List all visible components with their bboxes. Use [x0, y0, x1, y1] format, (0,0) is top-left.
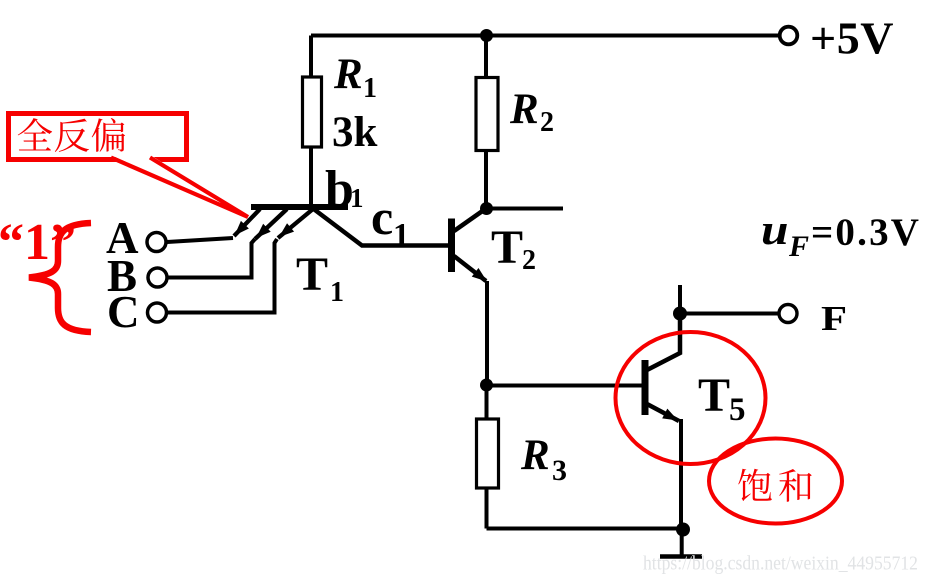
wire R3 bottom	[485, 488, 489, 529]
svg-text:2: 2	[522, 245, 536, 276]
transistor T2 collector	[454, 209, 486, 232]
wire T5 emitter down	[679, 419, 683, 530]
svg-text:3: 3	[552, 454, 567, 487]
svg-text:R: R	[509, 86, 539, 133]
svg-text:3k: 3k	[332, 109, 378, 156]
input terminal C circle	[148, 303, 167, 322]
wire R2 top	[484, 36, 488, 79]
svg-text:c: c	[371, 189, 393, 245]
transistor T1 multi-emitter base bar	[251, 204, 348, 210]
transistor T1 emitter 2	[255, 209, 287, 239]
resistor R3	[477, 419, 499, 488]
node T2 collector junction dot	[480, 202, 493, 215]
input terminal A circle	[147, 233, 166, 252]
red ellipse 饱和	[709, 439, 842, 524]
wire top rail +5V	[311, 34, 779, 38]
svg-text:https://blog.csdn.net/weixin_4: https://blog.csdn.net/weixin_44955712	[643, 553, 918, 575]
svg-text:T: T	[296, 248, 328, 301]
callout tail	[113, 156, 248, 217]
terminal F open circle	[779, 305, 797, 323]
red brace	[29, 223, 91, 332]
node F junction dot	[673, 307, 687, 321]
svg-text:1: 1	[363, 73, 377, 104]
red ellipse around T5	[616, 332, 766, 464]
terminal +5V open circle	[780, 27, 798, 45]
wire stub above F node	[678, 285, 682, 314]
transistor T5 base bar	[642, 360, 649, 415]
svg-text:+5V: +5V	[810, 13, 894, 64]
wire T2 emitter down	[485, 281, 489, 385]
wire R1 top	[309, 36, 313, 79]
wire bottom rail to ground node	[487, 527, 684, 531]
wire R3 top	[485, 385, 489, 420]
input terminal B circle	[148, 268, 167, 287]
wire R1 bottom to T1 base	[309, 147, 313, 207]
svg-text:F: F	[821, 300, 847, 339]
svg-text:1: 1	[350, 183, 364, 213]
ground	[680, 530, 684, 556]
svg-text:2: 2	[540, 107, 554, 138]
text 饱和	[738, 469, 772, 501]
svg-text:T: T	[698, 369, 730, 422]
node junction dot on +5V rail	[480, 29, 493, 42]
wire node to T5 base	[487, 384, 642, 388]
transistor T2 base bar	[448, 219, 455, 273]
svg-text:=0.3V: =0.3V	[811, 211, 921, 254]
transistor T2 emitter with arrow	[454, 256, 486, 281]
transistor T5 collector	[647, 314, 680, 371]
svg-text:u: u	[761, 207, 788, 254]
resistor R2	[476, 78, 498, 151]
svg-text:T: T	[491, 221, 523, 274]
wire input B to emitter2	[167, 239, 255, 278]
callout box 全反偏	[9, 114, 187, 160]
node junction dot T2 emitter / R3 / T5 base	[480, 379, 493, 392]
transistor T5 emitter with arrow	[647, 404, 679, 421]
wire stub right of T2 collector node	[487, 207, 564, 211]
svg-text:1: 1	[330, 277, 344, 308]
svg-text:R: R	[333, 51, 363, 98]
svg-text:1: 1	[393, 218, 410, 254]
wire R2 bottom to T2 collector	[484, 150, 488, 209]
svg-text:C: C	[107, 287, 140, 337]
wire T1 collector c1 to T2 base	[313, 209, 448, 246]
wire input A to emitter1	[167, 238, 233, 242]
svg-text:F: F	[788, 230, 809, 263]
svg-text:5: 5	[729, 392, 746, 428]
svg-text:“1”: “1”	[0, 214, 76, 271]
transistor T1 emitter 3	[278, 209, 313, 238]
transistor T1 emitter 1	[234, 209, 260, 236]
text 全反偏	[18, 118, 52, 150]
svg-text:R: R	[520, 432, 550, 479]
wire input C to emitter3	[167, 239, 277, 313]
node bottom junction dot	[676, 523, 690, 537]
wire F node to terminal	[680, 312, 779, 316]
resistor R1	[303, 77, 322, 147]
